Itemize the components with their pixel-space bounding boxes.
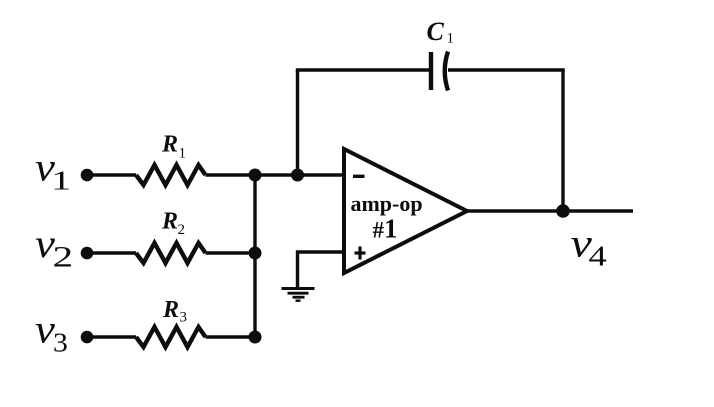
svg-text:4: 4 [589, 241, 607, 273]
label v1 [35, 146, 71, 196]
label R1 [161, 132, 186, 162]
node v1 input terminal [81, 169, 94, 182]
label v3 [35, 308, 68, 359]
svg-text:2: 2 [178, 222, 186, 238]
wire non-inverting input to ground [298, 252, 345, 288]
label C1 [427, 17, 455, 47]
svg-text:3: 3 [53, 329, 68, 358]
wire feedback top left segment [296, 68, 431, 71]
wire op-amp output [467, 209, 633, 212]
wire feedback top right segment [448, 68, 565, 71]
capacitor C1 left plate [429, 52, 433, 90]
op-amp U1 amp-op #1 [344, 149, 467, 273]
capacitor C1 right plate [445, 52, 448, 91]
svg-text:1: 1 [51, 166, 71, 196]
resistor R2 [136, 243, 206, 263]
wire summing vertical line [253, 175, 256, 337]
node v2 input terminal [81, 247, 94, 260]
wire R1 to summing node and op-amp inverting input [206, 173, 347, 176]
svg-text:1: 1 [179, 146, 187, 162]
wire R3 to summing line [206, 335, 256, 338]
label v2 [35, 222, 73, 273]
wire feedback vertical right down to output [561, 70, 564, 211]
svg-text:3: 3 [180, 310, 188, 326]
svg-text:2: 2 [53, 240, 74, 273]
node v4 output junction [556, 204, 570, 218]
label v4 [571, 221, 607, 272]
pin label minus inverting input [353, 175, 365, 178]
resistor R1 [136, 165, 206, 185]
svg-text:R: R [161, 209, 178, 235]
wire feedback vertical left [296, 70, 299, 175]
wire R2 to summing line [206, 251, 256, 254]
svg-text:R: R [162, 297, 179, 323]
wire v3 to R3 [87, 335, 136, 338]
pin label plus non-inverting input [355, 247, 366, 260]
ground [282, 289, 315, 301]
node v3 input terminal [81, 331, 94, 344]
wire v2 to R2 [87, 251, 136, 254]
svg-text:R: R [161, 132, 178, 158]
junction summing node row v1 [249, 169, 262, 182]
wire v1 to R1 [87, 173, 136, 176]
junction summing node row v2 [249, 247, 262, 260]
svg-text:amp-op: amp-op [350, 191, 422, 216]
label R2 [161, 209, 185, 239]
junction feedback tap on inverting input [291, 169, 304, 182]
label R3 [162, 297, 187, 326]
svg-text:C: C [427, 17, 445, 46]
junction summing node row v3 [249, 331, 262, 344]
svg-text:#1: #1 [373, 214, 398, 244]
svg-text:1: 1 [447, 31, 455, 47]
resistor R3 [136, 327, 206, 347]
